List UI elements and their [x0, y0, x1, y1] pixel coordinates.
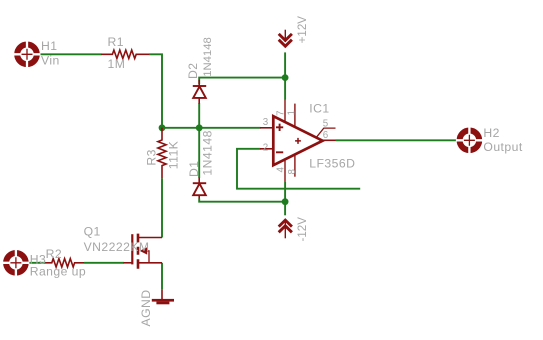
- svg-text:LF356D: LF356D: [309, 156, 355, 170]
- svg-text:H2: H2: [483, 126, 499, 140]
- svg-text:-12V: -12V: [296, 217, 309, 242]
- svg-text:IC1: IC1: [309, 101, 329, 115]
- svg-text:111K: 111K: [167, 141, 181, 169]
- svg-text:+12V: +12V: [296, 16, 309, 44]
- svg-text:VN2222KM: VN2222KM: [84, 240, 150, 254]
- svg-text:Vin: Vin: [41, 54, 60, 68]
- svg-text:H1: H1: [41, 39, 57, 53]
- svg-text:Q1: Q1: [84, 225, 101, 239]
- svg-text:3: 3: [263, 117, 269, 128]
- svg-text:R1: R1: [108, 35, 124, 49]
- svg-text:Range up: Range up: [30, 265, 86, 279]
- svg-text:8: 8: [287, 169, 298, 175]
- svg-text:Output: Output: [483, 140, 522, 154]
- svg-text:1N4148: 1N4148: [201, 130, 215, 175]
- svg-text:1M: 1M: [108, 57, 126, 71]
- svg-text:D1: D1: [187, 161, 201, 177]
- svg-text:AGND: AGND: [139, 289, 153, 326]
- svg-text:7: 7: [276, 111, 287, 116]
- svg-text:R3: R3: [144, 149, 158, 165]
- svg-text:1N4148: 1N4148: [202, 37, 214, 77]
- svg-text:1: 1: [286, 110, 297, 115]
- svg-text:D2: D2: [186, 63, 200, 79]
- svg-text:4: 4: [276, 167, 287, 173]
- svg-text:5: 5: [323, 118, 329, 129]
- svg-text:2: 2: [263, 143, 268, 154]
- svg-text:6: 6: [323, 130, 329, 141]
- svg-text:R2: R2: [46, 247, 62, 261]
